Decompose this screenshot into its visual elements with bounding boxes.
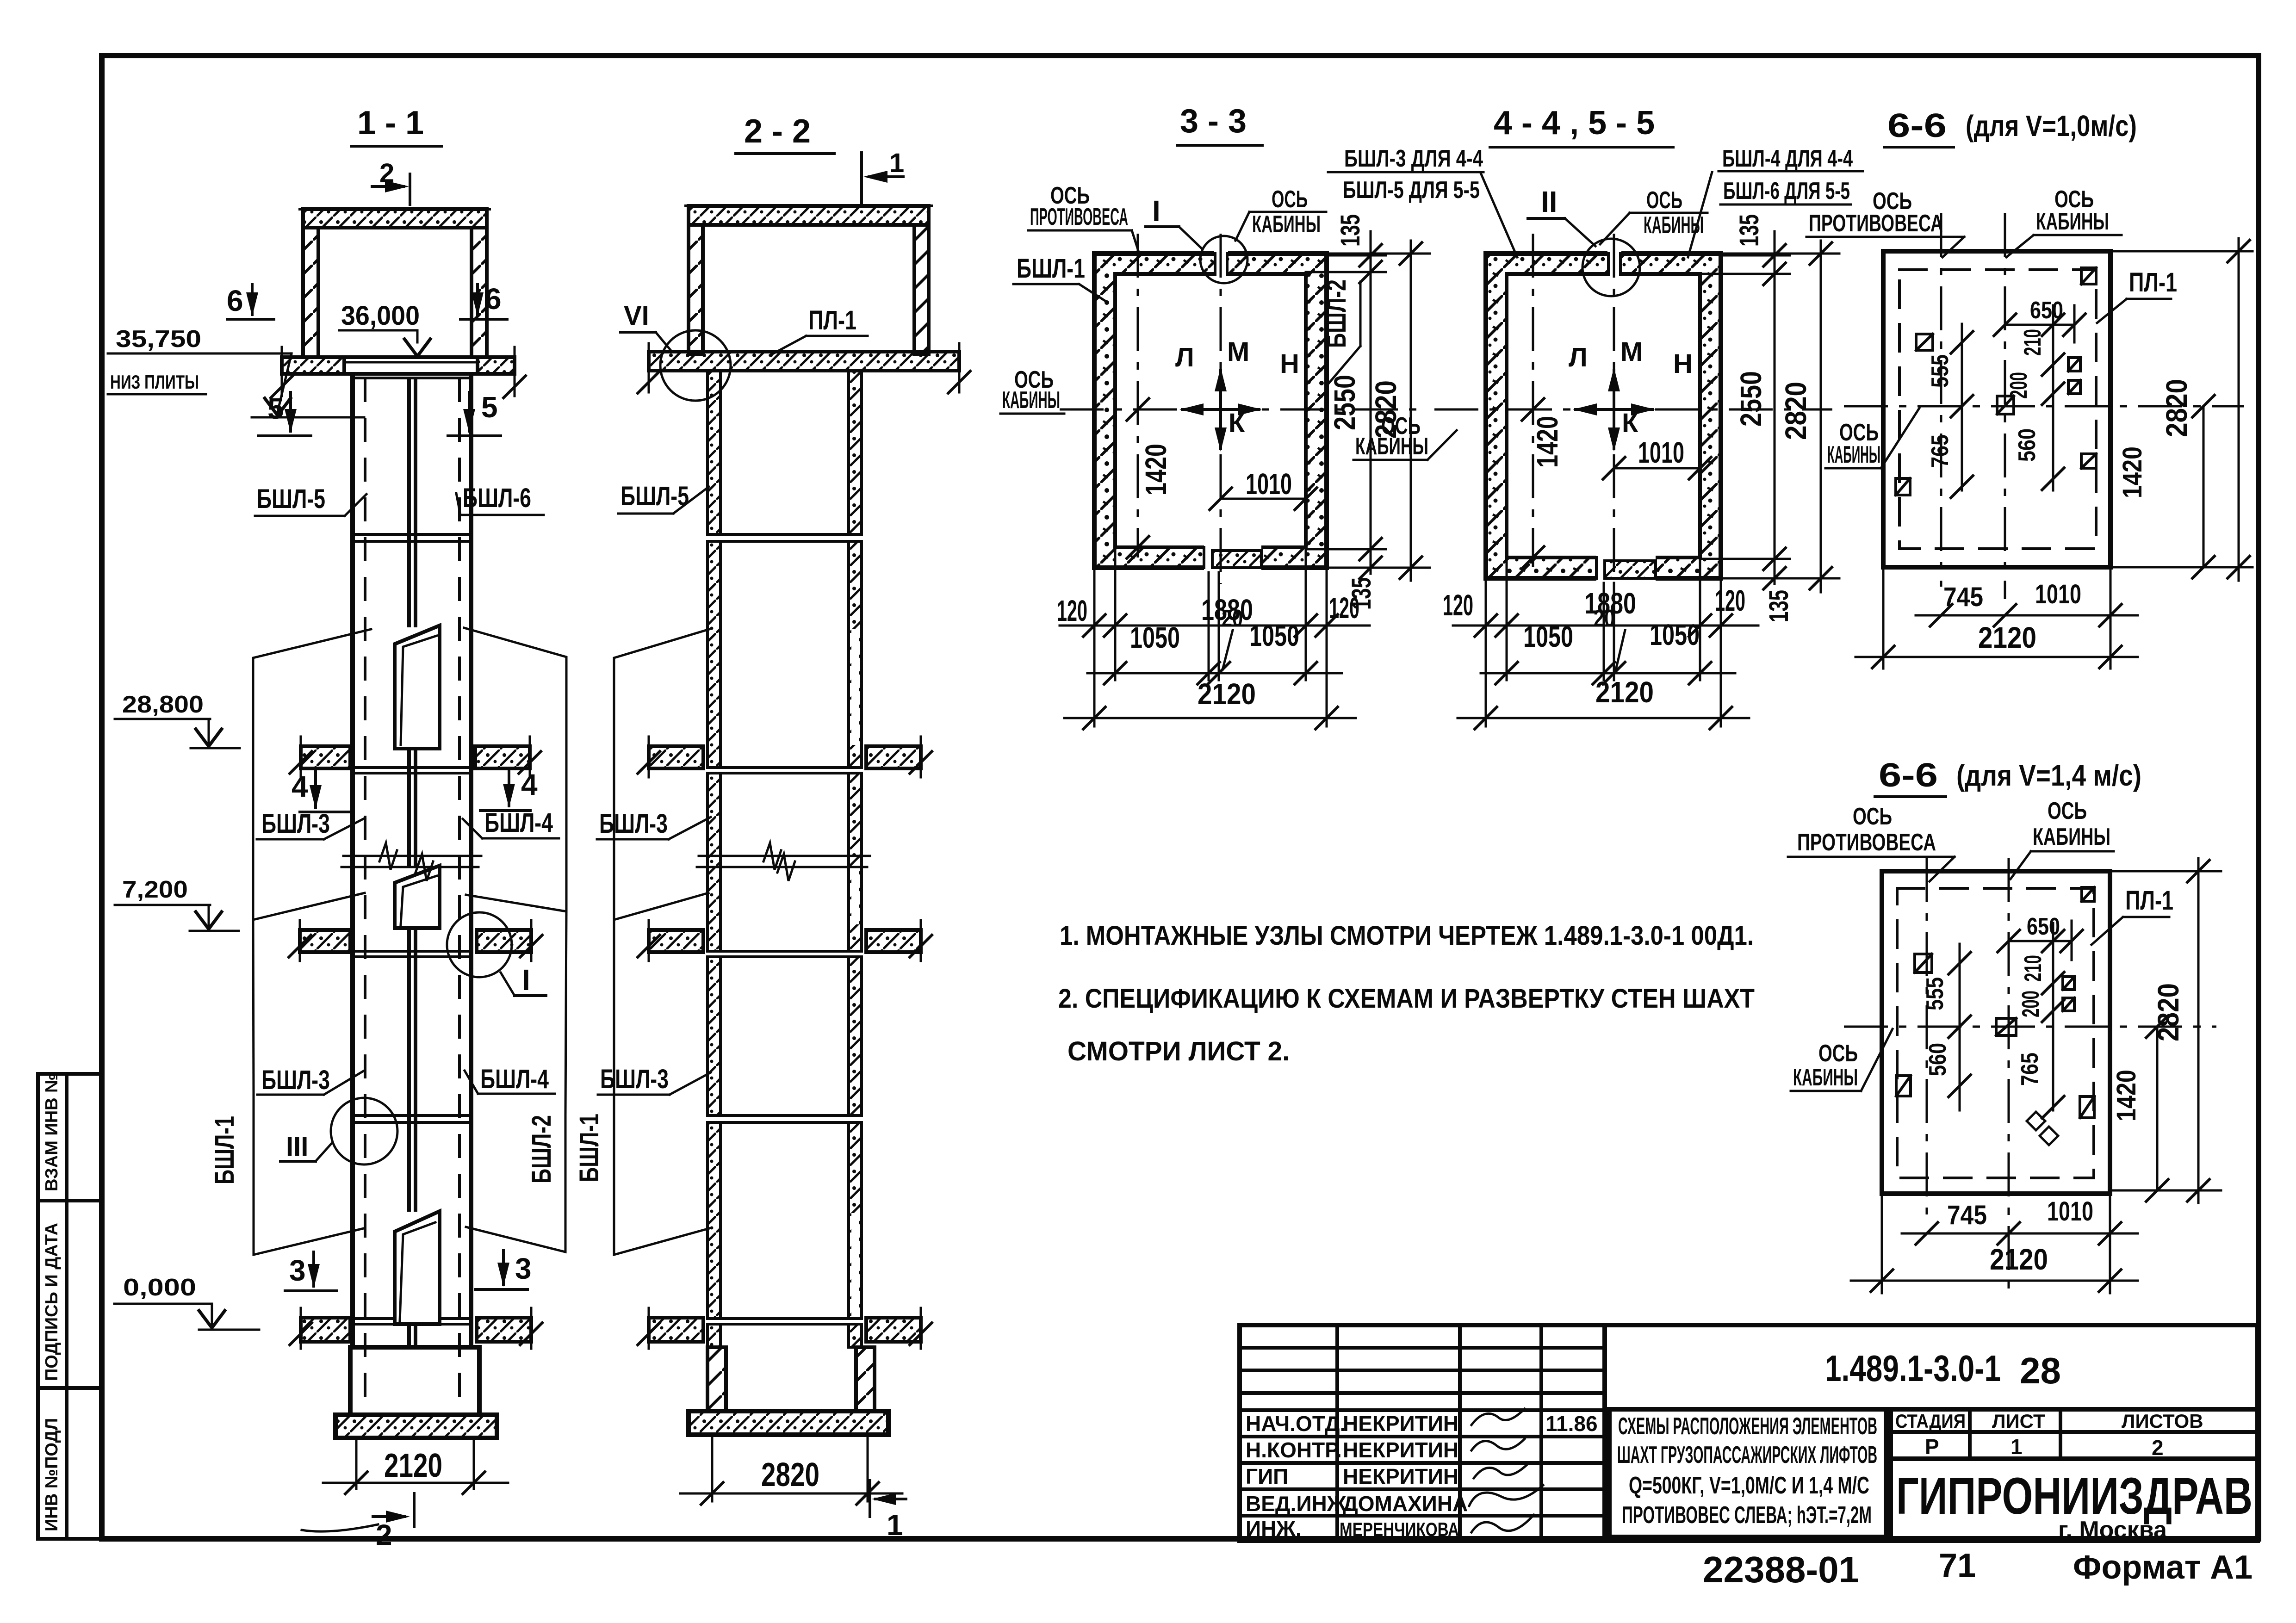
detail circle I on plan (1200, 236, 1247, 283)
svg-text:7,200: 7,200 (122, 876, 188, 903)
svg-text:35,750: 35,750 (116, 326, 201, 353)
pit walls 2-2 (707, 1347, 726, 1411)
bottom wall door threshold 3-3 (1204, 532, 1261, 571)
signatures (1471, 1409, 1525, 1425)
svg-text:БШЛ-1: БШЛ-1 (1017, 254, 1085, 284)
svg-text:1010: 1010 (1246, 467, 1292, 501)
svg-text:2550: 2550 (1734, 371, 1768, 427)
svg-text:200: 200 (2005, 372, 2032, 399)
svg-text:765: 765 (1927, 434, 1954, 468)
svg-text:1: 1 (887, 1508, 903, 1542)
panel joints 2-2 (707, 534, 862, 1324)
svg-text:135: 135 (1734, 214, 1764, 247)
svg-text:(для V=1,4 м/с): (для V=1,4 м/с) (1956, 759, 2141, 792)
svg-text:Q=500КГ, V=1,0М/С И 1,4 М/С: Q=500КГ, V=1,0М/С И 1,4 М/С (1629, 1472, 1869, 1499)
svg-text:71: 71 (1939, 1547, 1976, 1584)
detail circle I (447, 912, 512, 977)
dimension 1420 6-6b (2156, 1027, 2159, 1190)
dimension 2120 (355, 1438, 358, 1489)
svg-text:135: 135 (1764, 590, 1794, 622)
bottom dimensions plan 4-4 (1453, 558, 1758, 726)
cabin vertical axis 3-3 (1220, 234, 1222, 584)
svg-text:ОСЬ: ОСЬ (1853, 803, 1892, 830)
svg-text:БШЛ-1: БШЛ-1 (574, 1114, 604, 1182)
svg-text:1010: 1010 (1638, 436, 1684, 469)
detail circle III (331, 1098, 397, 1165)
svg-text:ИНВ №ПОДЛ: ИНВ №ПОДЛ (42, 1418, 62, 1531)
slab outline 6-6b (1882, 871, 2110, 1194)
dimension 1420 6-6a (2203, 406, 2205, 567)
machine room right wall (472, 228, 487, 357)
svg-text:Н.КОНТР.: Н.КОНТР. (1246, 1438, 1342, 1462)
detail circle VI (660, 330, 731, 401)
cabin horizontal axis 4-4 (1434, 409, 1832, 411)
top wall gap 3-3 (1214, 249, 1228, 278)
svg-text:ОСЬ: ОСЬ (1272, 186, 1308, 213)
svg-text:Л: Л (1569, 342, 1588, 372)
svg-text:2120: 2120 (1595, 675, 1654, 709)
svg-text:1010: 1010 (2035, 579, 2081, 609)
svg-text:2120: 2120 (1978, 621, 2036, 654)
svg-text:2820: 2820 (2152, 983, 2185, 1041)
bottom wall door threshold 4-4 (1596, 542, 1656, 582)
dimension chain 555/560 6-6b (1959, 944, 1961, 1110)
svg-text:1050: 1050 (1130, 621, 1180, 654)
counterweight axis 4-4 (1532, 234, 1534, 567)
svg-text:II: II (1541, 185, 1558, 218)
dimension 1010 plan 4-4 (1614, 467, 1700, 470)
title block (1240, 1325, 2258, 1543)
svg-text:КАБИНЫ: КАБИНЫ (2033, 824, 2110, 850)
diamond marks 6-6b (2027, 1112, 2045, 1130)
svg-text:1.489.1-3.0-1: 1.489.1-3.0-1 (1825, 1348, 2001, 1389)
break lines 2-2 (699, 855, 870, 857)
floor slabs 2-2 middle (649, 930, 703, 952)
svg-text:СМОТРИ ЛИСТ 2.: СМОТРИ ЛИСТ 2. (1067, 1036, 1290, 1066)
anchor plates 6-6b (1896, 887, 2094, 1118)
dimension chain 210/200 6-6b (2052, 923, 2054, 1110)
svg-text:2820: 2820 (1779, 382, 1812, 440)
svg-text:К: К (1622, 408, 1638, 438)
shaft interior plan 4-4 (1507, 274, 1700, 558)
bottom dimensions plan 3-3 (1060, 547, 1370, 726)
shaft outer walls (350, 378, 355, 1347)
svg-text:4: 4 (521, 768, 538, 801)
svg-text:4: 4 (292, 770, 308, 803)
svg-text:БШЛ-4: БШЛ-4 (480, 1064, 549, 1094)
svg-text:Р: Р (1925, 1435, 1939, 1459)
svg-text:БШЛ-2: БШЛ-2 (1322, 279, 1352, 348)
svg-text:III: III (286, 1132, 308, 1162)
svg-text:2820: 2820 (2160, 379, 2193, 437)
center divider wall (409, 379, 416, 1347)
title block small table (1240, 1325, 1605, 1541)
svg-text:М: М (1227, 337, 1249, 367)
door opening upper (395, 626, 440, 749)
machine room right wall 2-2 (914, 225, 929, 354)
slab outline 6-6a (1883, 251, 2110, 567)
svg-text:120: 120 (1715, 584, 1745, 617)
svg-text:6-6: 6-6 (1879, 757, 1938, 794)
callout polygon upper right (464, 628, 566, 911)
svg-text:ПОДПИСЬ И ДАТА: ПОДПИСЬ И ДАТА (42, 1223, 62, 1381)
svg-text:2: 2 (2152, 1436, 2164, 1460)
svg-text:1420: 1420 (1531, 416, 1564, 468)
svg-text:г. Москва: г. Москва (2058, 1517, 2167, 1543)
svg-text:1050: 1050 (1249, 619, 1299, 652)
section cut mark 2 bottom (413, 1493, 416, 1527)
svg-text:1010: 1010 (2047, 1196, 2093, 1227)
cabin horizontal axis 3-3 (1060, 409, 1427, 411)
svg-text:2820: 2820 (761, 1456, 819, 1493)
svg-text:СХЕМЫ РАСПОЛОЖЕНИЯ ЭЛЕМЕНТОВ: СХЕМЫ РАСПОЛОЖЕНИЯ ЭЛЕМЕНТОВ (1618, 1413, 1877, 1440)
door slots on right wall (851, 629, 859, 1322)
cabin vertical axis 6-6a (2004, 213, 2006, 599)
svg-text:БШЛ-5 ДЛЯ 5-5: БШЛ-5 ДЛЯ 5-5 (1343, 177, 1480, 204)
cabin horizontal axis 6-6b (1844, 1026, 2216, 1028)
detail circle II on plan (1582, 239, 1640, 296)
machine room left wall 2-2 (689, 225, 703, 354)
svg-text:БШЛ-6 ДЛЯ 5-5: БШЛ-6 ДЛЯ 5-5 (1723, 178, 1850, 204)
svg-text:0,000: 0,000 (123, 1274, 196, 1301)
svg-text:28,800: 28,800 (122, 691, 204, 718)
counterweight axis 6-6b (1926, 858, 1928, 1214)
svg-text:745: 745 (1943, 582, 1983, 612)
dimension chain 210/200/560 6-6a (2052, 305, 2054, 490)
dimension chain 555/765 6-6a (1961, 324, 1963, 490)
svg-text:20: 20 (1222, 605, 1243, 632)
svg-text:ИНЖ.: ИНЖ. (1246, 1517, 1302, 1541)
left floor slab protrusion (282, 357, 344, 374)
svg-text:ОСЬ: ОСЬ (1818, 1040, 1858, 1067)
svg-text:ПРОТИВОВЕСА: ПРОТИВОВЕСА (1797, 829, 1936, 856)
svg-text:БШЛ-2: БШЛ-2 (527, 1115, 557, 1183)
svg-text:20: 20 (1594, 605, 1615, 632)
floor slabs 2-2 lower (649, 1318, 703, 1342)
cabin horizontal axis 6-6a (1844, 405, 2244, 408)
svg-text:135: 135 (1335, 214, 1365, 247)
slab PL-1 in section (344, 357, 478, 374)
cabin vertical axis 4-4 (1613, 234, 1615, 595)
svg-text:1420: 1420 (2117, 446, 2147, 498)
svg-text:НЕКРИТИН: НЕКРИТИН (1343, 1438, 1458, 1462)
callout polygon upper left (253, 629, 371, 920)
callout polygon 2-2 lower (614, 1093, 709, 1255)
svg-text:НЕКРИТИН: НЕКРИТИН (1343, 1412, 1458, 1436)
shaft wall panels left (707, 371, 720, 1347)
svg-text:1050: 1050 (1650, 618, 1700, 651)
floor slab band 2-2 (649, 352, 959, 371)
svg-text:1420: 1420 (2111, 1070, 2141, 1121)
svg-text:28: 28 (2020, 1350, 2061, 1391)
svg-text:КАБИНЫ: КАБИНЫ (1827, 441, 1880, 468)
svg-text:6-6: 6-6 (1887, 107, 1947, 144)
dimension 2820 plan 4-4 (1721, 253, 1839, 255)
svg-text:1050: 1050 (1523, 620, 1573, 653)
svg-text:БШЛ-6: БШЛ-6 (463, 483, 531, 513)
dimension 650 6-6b (2009, 940, 2072, 942)
svg-text:3: 3 (515, 1252, 532, 1285)
panel dashed lines (364, 378, 366, 1413)
panel joints (353, 534, 471, 1324)
svg-text:КАБИНЫ: КАБИНЫ (2036, 208, 2109, 235)
wall dashed outline 6-6a (1899, 270, 2096, 549)
stage table (1891, 1409, 2258, 1459)
svg-text:ВЗАМ ИНВ №: ВЗАМ ИНВ № (42, 1073, 62, 1191)
svg-text:I: I (1152, 194, 1160, 228)
svg-text:БШЛ-5: БШЛ-5 (257, 484, 325, 514)
door opening middle (395, 866, 440, 928)
callout polygon 2-2 upper (614, 629, 709, 920)
svg-text:НЕКРИТИН: НЕКРИТИН (1343, 1464, 1458, 1488)
svg-text:210: 210 (2020, 955, 2047, 982)
svg-text:555: 555 (1922, 977, 1948, 1010)
svg-text:КАБИНЫ: КАБИНЫ (1252, 211, 1321, 238)
anchor plates 6-6a (1896, 268, 2096, 495)
svg-text:ПРОТИВОВЕС СЛЕВА; hЭТ.=7,2М: ПРОТИВОВЕС СЛЕВА; hЭТ.=7,2М (1622, 1502, 1872, 1529)
svg-text:ЛИСТОВ: ЛИСТОВ (2122, 1410, 2203, 1432)
svg-text:555: 555 (1927, 354, 1954, 388)
svg-text:ПЛ-1: ПЛ-1 (2129, 267, 2177, 297)
svg-text:БШЛ-3: БШЛ-3 (261, 1065, 330, 1095)
machine room left wall (303, 228, 318, 357)
svg-text:2. СПЕЦИФИКАЦИЮ К СХЕМАМ И РАЗ: 2. СПЕЦИФИКАЦИЮ К СХЕМАМ И РАЗВЕРТКУ СТЕ… (1058, 984, 1755, 1014)
svg-text:КАБИНЫ: КАБИНЫ (1793, 1064, 1858, 1091)
svg-text:БШЛ-3 ДЛЯ 4-4: БШЛ-3 ДЛЯ 4-4 (1344, 145, 1483, 172)
svg-text:745: 745 (1947, 1200, 1987, 1230)
svg-text:120: 120 (1443, 588, 1473, 622)
callout polygon lower left (254, 1093, 364, 1255)
shaft walls plan 4-4 (1486, 254, 1721, 578)
svg-text:НАЧ.ОТД.: НАЧ.ОТД. (1246, 1412, 1346, 1436)
svg-text:VI: VI (624, 301, 649, 331)
svg-text:Формат А1: Формат А1 (2073, 1549, 2253, 1586)
svg-text:ПРОТИВОВЕСА: ПРОТИВОВЕСА (1030, 204, 1128, 230)
svg-text:БШЛ-3: БШЛ-3 (599, 809, 668, 839)
svg-text:560: 560 (1924, 1043, 1951, 1076)
svg-text:210: 210 (2019, 329, 2046, 356)
svg-text:22388-01: 22388-01 (1703, 1549, 1859, 1590)
machine room roof slab (303, 209, 487, 228)
left margin stamp boxes (38, 1073, 101, 1539)
svg-text:560: 560 (2014, 428, 2041, 462)
svg-text:ПЛ-1: ПЛ-1 (2125, 886, 2173, 916)
svg-text:1 - 1: 1 - 1 (357, 105, 424, 142)
section cut mark 1 top (860, 153, 863, 204)
svg-text:ПЛ-1: ПЛ-1 (808, 305, 856, 335)
section cut mark 1 bottom (869, 1481, 871, 1517)
svg-text:ПРОТИВОВЕСА: ПРОТИВОВЕСА (1809, 210, 1943, 237)
dimension 1420 plan 3-3 (1126, 397, 1150, 421)
svg-text:ВЕД.ИНЖ.: ВЕД.ИНЖ. (1246, 1492, 1352, 1516)
shaft interior plan 3-3 (1115, 274, 1306, 547)
svg-text:КАБИНЫ: КАБИНЫ (1002, 387, 1060, 414)
foundation slab 2-2 (689, 1411, 888, 1435)
floor slab pair at 0,000 (301, 1318, 350, 1342)
svg-text:К: К (1229, 408, 1245, 438)
svg-text:765: 765 (2017, 1053, 2043, 1086)
door opening lower (395, 1211, 440, 1324)
svg-text:КАБИНЫ: КАБИНЫ (1355, 433, 1428, 460)
svg-text:1. МОНТАЖНЫЕ УЗЛЫ СМОТРИ ЧЕРТЕ: 1. МОНТАЖНЫЕ УЗЛЫ СМОТРИ ЧЕРТЕЖ 1.489.1-… (1060, 921, 1754, 951)
wall dashed outline 6-6b (1897, 888, 2094, 1178)
shaft walls plan 3-3 (1094, 254, 1327, 568)
svg-text:ЛИСТ: ЛИСТ (1992, 1410, 2045, 1432)
svg-text:11.86: 11.86 (1545, 1412, 1598, 1436)
shaft wall panels right (849, 371, 862, 1347)
right dimension chain 135/2550/135 (1327, 254, 1386, 257)
counterweight axis 3-3 (1137, 234, 1139, 558)
counterweight axis 6-6a (1940, 213, 1942, 587)
svg-text:СТАДИЯ: СТАДИЯ (1895, 1410, 1966, 1432)
svg-text:БШЛ-1: БШЛ-1 (210, 1116, 240, 1184)
dimension 1420 plan 4-4 (1521, 397, 1545, 421)
dimension 2820 (711, 1435, 714, 1501)
svg-text:650: 650 (2027, 913, 2060, 940)
svg-text:МЕРЕНЧИКОВА: МЕРЕНЧИКОВА (1340, 1518, 1459, 1540)
callout polygon lower right (466, 1115, 565, 1252)
shaft top edge 2-2 (707, 369, 862, 372)
floor slab pair middle (300, 930, 350, 952)
svg-text:2550: 2550 (1328, 375, 1361, 430)
svg-text:I: I (522, 963, 530, 997)
bottom dimensions 745/1010/2120 6-6b (1881, 1194, 1883, 1293)
dimension 2820 6-6b (2110, 870, 2221, 873)
svg-text:2120: 2120 (1198, 677, 1256, 711)
svg-text:4 - 4 , 5 - 5: 4 - 4 , 5 - 5 (1494, 105, 1655, 142)
svg-text:6: 6 (485, 282, 502, 316)
title text box (1609, 1409, 1886, 1537)
foundation slab (335, 1415, 497, 1438)
svg-text:(для V=1,0м/с): (для V=1,0м/с) (1966, 109, 2137, 142)
right floor slab protrusion (478, 357, 515, 374)
pit walls (350, 1347, 479, 1415)
svg-text:6: 6 (227, 284, 243, 317)
svg-text:3: 3 (289, 1254, 306, 1287)
direction arrows cross 3-3 (1175, 337, 1299, 452)
svg-text:Н: Н (1673, 349, 1693, 379)
svg-text:2120: 2120 (384, 1447, 442, 1484)
svg-text:3 - 3: 3 - 3 (1180, 103, 1247, 140)
dimension 650 6-6a (2005, 324, 2074, 326)
title block big box (1605, 1325, 2258, 1541)
svg-text:ГИП: ГИП (1246, 1464, 1288, 1488)
svg-text:БШЛ-5: БШЛ-5 (621, 481, 689, 511)
cabin vertical axis 6-6b (2008, 858, 2010, 1291)
dimension 1010 plan 3-3 (1221, 498, 1306, 500)
machine room roof slab 2-2 (689, 206, 929, 225)
top wall gap 4-4 (1607, 249, 1621, 278)
svg-text:120: 120 (1329, 591, 1359, 625)
dimension 2820 plan 3-3 (1327, 253, 1430, 255)
svg-text:5: 5 (481, 390, 498, 424)
svg-text:1: 1 (889, 148, 904, 178)
svg-text:Н: Н (1280, 349, 1299, 379)
floor slab pair at 28,800 (301, 746, 350, 768)
right dimension chain 135/2550/135 plan 4-4 (1721, 254, 1790, 257)
svg-text:БШЛ-4 ДЛЯ 4-4: БШЛ-4 ДЛЯ 4-4 (1722, 145, 1853, 172)
dimension 2820 6-6a (2110, 250, 2253, 253)
svg-text:ДОМАХИНА: ДОМАХИНА (1343, 1492, 1468, 1516)
svg-text:НИЗ ПЛИТЫ: НИЗ ПЛИТЫ (110, 371, 199, 393)
svg-text:ОСЬ: ОСЬ (2048, 798, 2087, 824)
bottom dimensions 745/1010/2120 6-6a (1882, 567, 1885, 669)
svg-text:БШЛ-4: БШЛ-4 (484, 808, 553, 838)
svg-text:2 - 2: 2 - 2 (744, 113, 811, 150)
floor slabs 2-2 upper (649, 746, 703, 768)
svg-text:1: 1 (2011, 1435, 2023, 1459)
svg-text:200: 200 (2017, 991, 2044, 1017)
svg-text:М: М (1620, 337, 1643, 367)
svg-text:БШЛ-3: БШЛ-3 (600, 1064, 669, 1094)
svg-text:Л: Л (1175, 342, 1194, 372)
svg-text:ОСЬ: ОСЬ (1646, 187, 1682, 214)
break lines (343, 855, 481, 857)
svg-text:36,000: 36,000 (341, 301, 420, 331)
svg-text:2120: 2120 (1990, 1243, 2048, 1276)
direction arrows cross 4-4 (1569, 337, 1693, 452)
svg-text:120: 120 (1057, 594, 1087, 627)
svg-text:1420: 1420 (1139, 444, 1173, 496)
svg-text:ШАХТ ГРУЗОПАССАЖИРСКИХ ЛИФТОВ: ШАХТ ГРУЗОПАССАЖИРСКИХ ЛИФТОВ (1617, 1442, 1877, 1468)
